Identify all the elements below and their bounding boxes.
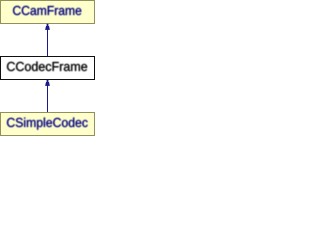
- inheritance arrow 2: CSimpleCodec to CCodecFrame (shaft): [47, 80, 48, 112]
- class box CCamFrame: [0, 0, 95, 24]
- class box CSimpleCodec: [0, 112, 95, 136]
- label CCodecFrame: [7, 62, 87, 72]
- arrow 1 head base: [45, 26, 50, 30]
- arrow 1 head tip: [47, 24, 49, 26]
- label CCamFrame: [13, 6, 81, 15]
- arrow 2 head base: [45, 82, 50, 86]
- inheritance arrow 1: CCodecFrame to CCamFrame (shaft): [47, 24, 48, 56]
- arrow 2 head tip: [47, 80, 49, 82]
- class box CCodecFrame: [0, 56, 95, 80]
- label CSimpleCodec: [7, 118, 88, 130]
